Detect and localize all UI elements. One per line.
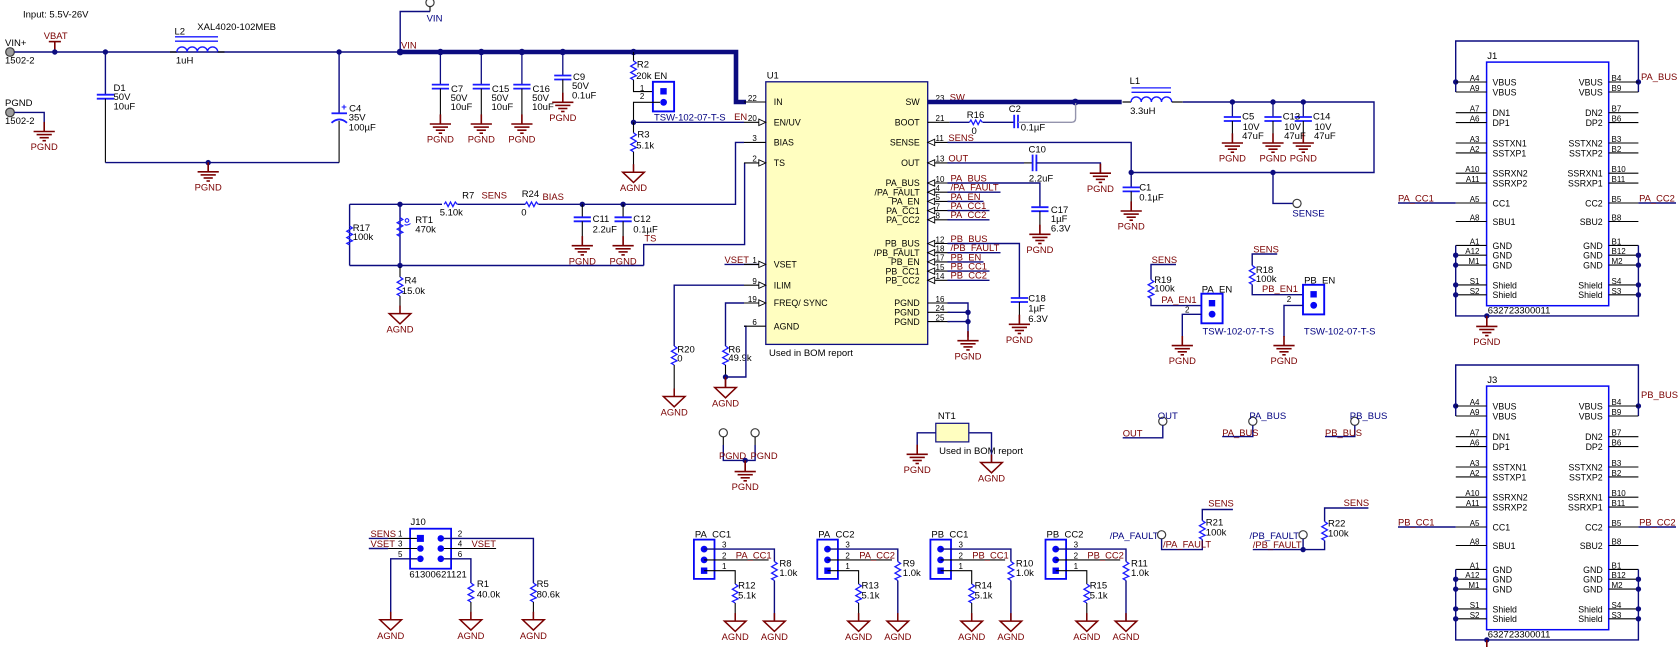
wire R5 bottom lead	[532, 602, 534, 620]
wire stub PB_EN	[948, 261, 984, 263]
svg-text:VIN: VIN	[401, 40, 417, 51]
ground AGND (U1)	[715, 380, 737, 398]
svg-text:AGND: AGND	[712, 398, 739, 409]
wire test point 1 lead	[722, 437, 724, 445]
svg-text:2: 2	[640, 92, 645, 101]
resistor R1	[468, 583, 474, 602]
wire PB_CC2 pin1 to R15	[1056, 571, 1087, 584]
inductor L1 core bars	[1132, 88, 1172, 92]
wire PB_BUS off-page	[1325, 425, 1355, 436]
off-page connector SENSE	[1293, 199, 1301, 207]
svg-text:TSW-102-07-T-S: TSW-102-07-T-S	[1304, 327, 1376, 338]
svg-text:0.1uF: 0.1uF	[572, 90, 596, 101]
port PGND 1502-2	[6, 108, 15, 117]
svg-text:1502-2: 1502-2	[5, 56, 35, 67]
svg-text:OUT: OUT	[948, 152, 968, 163]
pin 4 /PA_FAULT stub	[928, 191, 950, 193]
svg-text:3: 3	[398, 540, 403, 549]
power symbol PGND (C7)	[430, 114, 451, 133]
pin 2 TS stub	[744, 162, 766, 164]
wire C7 top lead	[439, 52, 441, 85]
svg-text:2: 2	[1074, 551, 1079, 560]
svg-text:1uH: 1uH	[176, 56, 194, 67]
resistor R12	[732, 584, 738, 603]
svg-text:PGND: PGND	[954, 350, 981, 361]
svg-text:PA_CC1: PA_CC1	[736, 549, 772, 560]
svg-text:10uF: 10uF	[451, 102, 473, 113]
junction C5	[1230, 99, 1235, 104]
svg-text:PGND: PGND	[1087, 183, 1114, 194]
connector PB_CC1 3-pin header	[930, 540, 951, 579]
wire PGND pins	[948, 303, 969, 337]
capacitor D1	[97, 95, 114, 99]
wire D1 bottom lead	[104, 99, 106, 163]
wire R18 net	[1252, 254, 1303, 295]
svg-text:1: 1	[1074, 562, 1079, 571]
svg-text:FREQ/ SYNC: FREQ/ SYNC	[774, 298, 828, 308]
resistor R13	[856, 584, 862, 603]
inductor L2	[177, 47, 218, 52]
svg-text:80.6k: 80.6k	[537, 590, 560, 601]
svg-text:R3: R3	[637, 130, 649, 141]
pin 5 PA_EN stub	[928, 200, 950, 202]
svg-text:SENS: SENS	[1344, 497, 1370, 508]
net-tie NT1	[936, 423, 969, 442]
ground AGND (R11)	[1115, 613, 1137, 631]
svg-text:5.1k: 5.1k	[738, 590, 756, 601]
svg-text:6: 6	[752, 318, 757, 327]
svg-text:PGND: PGND	[732, 481, 759, 492]
power symbol PGND (C11)	[572, 236, 593, 255]
resistor R3	[631, 133, 637, 152]
pin 3 BIAS stub	[744, 141, 766, 143]
wire TS rail	[350, 265, 644, 267]
svg-text:PA_BUS: PA_BUS	[1222, 427, 1258, 438]
wire PB_CC2 stub (J3)	[1638, 526, 1676, 528]
svg-text:C10: C10	[1029, 144, 1046, 155]
power symbol PGND (test points)	[735, 462, 756, 481]
svg-text:SENS: SENS	[1208, 498, 1234, 509]
svg-text:AGND: AGND	[845, 631, 872, 642]
svg-text:PGND: PGND	[751, 450, 778, 461]
svg-text:0: 0	[972, 126, 977, 137]
svg-text:1: 1	[845, 562, 850, 571]
resistor R4	[397, 277, 403, 296]
svg-text:OUT: OUT	[901, 158, 920, 168]
capacitor C11	[574, 217, 591, 221]
svg-text:2: 2	[959, 551, 964, 560]
junction C9	[560, 49, 566, 55]
svg-text:100k: 100k	[1328, 528, 1349, 539]
svg-text:R5: R5	[537, 579, 549, 590]
svg-text:AGND: AGND	[997, 631, 1024, 642]
pin 1 VSET stub	[744, 263, 766, 265]
svg-text:AGND: AGND	[386, 324, 413, 335]
wire C15 bottom lead	[480, 89, 482, 124]
svg-text:/PB_FAULT: /PB_FAULT	[1253, 539, 1302, 550]
svg-text:PGND: PGND	[5, 98, 33, 109]
svg-text:VBAT: VBAT	[44, 30, 68, 41]
wire R10 to AGND	[1010, 581, 1012, 622]
svg-text:VSET: VSET	[371, 538, 396, 549]
wire ILIM to R20	[674, 285, 744, 346]
junction test point gnd	[743, 458, 748, 463]
wire R16 to C2	[983, 121, 1015, 123]
wire L1 right lead	[1172, 101, 1183, 103]
wire stub PA_CC2	[948, 219, 990, 221]
svg-text:PGND: PGND	[1270, 355, 1297, 366]
pin 15 PB_CC1 stub	[928, 270, 950, 272]
wire R17 column	[349, 204, 351, 265]
power symbol PGND (PB_EN)	[1273, 336, 1294, 355]
svg-text:SENS: SENS	[482, 190, 508, 201]
svg-text:100k: 100k	[1154, 284, 1175, 295]
svg-text:AGND: AGND	[1112, 631, 1139, 642]
wire C16 bottom lead	[521, 89, 523, 124]
wire RT1 column	[399, 204, 401, 265]
svg-text:PGND: PGND	[508, 134, 535, 145]
wire C5 top lead	[1231, 102, 1233, 117]
ground AGND (R10)	[1000, 613, 1022, 631]
svg-text:1: 1	[722, 562, 727, 571]
junction VIN bus left	[397, 49, 404, 56]
wire R15 bottom lead	[1086, 603, 1088, 621]
svg-text:Used in BOM report: Used in BOM report	[939, 446, 1023, 457]
capacitor C13	[1264, 117, 1281, 121]
capacitor C10	[1033, 155, 1037, 172]
svg-text:PGND: PGND	[1026, 244, 1053, 255]
svg-text:20k: 20k	[636, 71, 652, 82]
svg-text:PA_CC1: PA_CC1	[1398, 192, 1434, 203]
wire J10 pin2 to R5	[444, 538, 533, 583]
svg-text:10uF: 10uF	[114, 101, 136, 112]
svg-text:TS: TS	[774, 158, 785, 168]
pin 12 PB_BUS stub	[928, 243, 950, 245]
wire R8 to AGND	[773, 581, 775, 622]
power symbol PGND (PA_EN)	[1172, 336, 1193, 355]
op-amp U1 body (TPS259xx)	[766, 82, 928, 345]
wire PB_CC1 stub (J3)	[1398, 526, 1456, 528]
resistor R20	[671, 346, 677, 365]
svg-text:C12: C12	[633, 214, 650, 225]
wire PB_CC2 pin2 stub	[1056, 559, 1121, 561]
svg-text:SW: SW	[906, 97, 921, 107]
pin 6 AGND stub	[744, 325, 766, 327]
ground AGND (R15)	[1076, 613, 1098, 631]
svg-text:14: 14	[936, 272, 945, 281]
svg-text:PGND: PGND	[1473, 336, 1500, 347]
pin 22 IN stub	[744, 101, 766, 103]
wire C4 bottom lead	[338, 121, 340, 163]
wire R20 bottom lead	[673, 365, 675, 397]
junction C7	[437, 49, 443, 55]
power symbol PGND (input)	[34, 122, 55, 141]
svg-text:C5: C5	[1242, 112, 1254, 123]
connector J10 pins	[417, 535, 444, 562]
wire PB_CC1 pin1 to R14	[941, 571, 972, 584]
svg-text:AGND: AGND	[761, 631, 788, 642]
svg-text:AGND: AGND	[1073, 631, 1100, 642]
pin 17 PB_EN stub	[928, 261, 950, 263]
capacitor C4 (polarized)	[332, 113, 348, 123]
wire R13 bottom lead	[858, 603, 860, 621]
svg-text:AGND: AGND	[377, 630, 404, 641]
wire PB_EN pin2 to PGND	[1284, 305, 1303, 337]
svg-text:5.1k: 5.1k	[1090, 590, 1108, 601]
svg-text:ILIM: ILIM	[774, 280, 791, 290]
off-page connector PB_BUS	[1351, 417, 1359, 425]
svg-text:PB_CC2: PB_CC2	[951, 270, 987, 281]
svg-text:/PA_FAULT: /PA_FAULT	[1110, 531, 1159, 542]
svg-text:EN: EN	[734, 111, 747, 122]
svg-text:IN: IN	[774, 97, 783, 107]
svg-text:5.1k: 5.1k	[862, 590, 880, 601]
svg-text:17: 17	[936, 254, 945, 263]
wire PA_EN pin2 to PGND	[1182, 314, 1201, 337]
wire PB_CC1 pin2 stub	[941, 559, 1006, 561]
wire R2 top lead	[633, 52, 635, 61]
capacitor C7	[432, 85, 449, 89]
svg-text:3: 3	[1074, 541, 1079, 550]
wire R2 to EN pin 1	[634, 80, 662, 92]
svg-text:12: 12	[936, 235, 945, 244]
svg-text:PGND: PGND	[904, 464, 931, 475]
svg-text:1.0k: 1.0k	[903, 568, 921, 579]
svg-text:R2: R2	[637, 60, 649, 71]
svg-text:OUT: OUT	[1123, 427, 1143, 438]
pin 13 OUT stub	[928, 162, 950, 164]
svg-text:C13: C13	[1283, 112, 1300, 123]
svg-text:9: 9	[752, 277, 757, 286]
wire R11 to AGND	[1125, 581, 1127, 622]
svg-text:SENSE: SENSE	[1292, 209, 1324, 220]
wire C13 top lead	[1272, 102, 1274, 117]
power symbol PGND (U1)	[957, 331, 978, 350]
inductor L2 core bars	[175, 37, 218, 41]
wire TS net to U1	[644, 163, 745, 266]
port PGND test point 1	[719, 429, 727, 437]
wire EN net to U1	[634, 121, 745, 123]
pin 21 BOOT stub	[928, 121, 950, 123]
svg-text:19: 19	[748, 295, 757, 304]
wire C15 top lead	[480, 52, 482, 85]
ground AGND (R20)	[663, 389, 685, 407]
svg-text:PA_EN1: PA_EN1	[1161, 294, 1196, 305]
capacitor C18	[1011, 298, 1028, 302]
svg-text:5.1k: 5.1k	[975, 590, 993, 601]
svg-text:R1: R1	[477, 579, 489, 590]
capacitor C2	[1014, 115, 1018, 128]
wire SENS net	[948, 142, 1132, 172]
svg-text:AGND: AGND	[774, 321, 799, 331]
svg-text:100µF: 100µF	[349, 123, 376, 134]
wire stub PA_EN	[948, 200, 984, 202]
svg-text:NT1: NT1	[938, 411, 956, 422]
wire C11 bottom lead	[581, 221, 583, 245]
ground AGND (R8)	[764, 613, 786, 631]
resistor R14	[969, 584, 975, 603]
svg-text:5: 5	[936, 193, 941, 202]
power symbol PGND (C5)	[1222, 133, 1243, 152]
svg-text:49.9k: 49.9k	[728, 353, 751, 364]
wire L1 to output loop	[1131, 102, 1374, 173]
junction D1 top	[103, 49, 108, 54]
wire C12 top lead	[622, 204, 624, 217]
svg-text:1: 1	[752, 256, 757, 265]
wire SENS stub (J10)	[369, 537, 388, 539]
wire stub PB_CC1	[948, 270, 990, 272]
resistor R2	[631, 61, 637, 80]
svg-text:25: 25	[936, 313, 945, 322]
power symbol PGND (C1)	[1121, 201, 1142, 220]
svg-text:3: 3	[722, 541, 727, 550]
wire C1 top lead	[1130, 173, 1132, 188]
resistor R16	[969, 120, 982, 125]
svg-text:AGND: AGND	[520, 630, 547, 641]
wire PGND port to ground	[14, 112, 44, 123]
svg-text:0.1µF: 0.1µF	[1021, 122, 1046, 133]
pin 18 /PB_FAULT stub	[928, 252, 950, 254]
svg-text:EN: EN	[654, 71, 667, 82]
pin 8 PA_CC2 stub	[928, 219, 950, 221]
svg-text:AGND: AGND	[958, 631, 985, 642]
junction C1	[1129, 170, 1134, 175]
wire stub /PB_FAULT	[948, 252, 1001, 254]
wire C14 bottom lead	[1302, 121, 1304, 134]
junction SW-C2	[1072, 99, 1079, 106]
svg-text:PGND: PGND	[31, 141, 58, 152]
wire stub /PA_FAULT	[948, 191, 1001, 193]
ground AGND (R3)	[623, 164, 645, 182]
wire PGND pin 24	[948, 311, 969, 313]
junction C14	[1301, 99, 1306, 104]
wire OUT to C10	[948, 162, 1025, 164]
svg-text:0: 0	[521, 208, 526, 219]
junction SENSE tap	[1270, 170, 1275, 175]
wire FREQ/SYNC to R6	[726, 303, 745, 346]
wire VIN+ rail	[14, 51, 400, 53]
wire R1 bottom lead	[470, 602, 472, 620]
svg-text:1.0k: 1.0k	[1016, 568, 1034, 579]
svg-text:5.1k: 5.1k	[636, 140, 654, 151]
svg-text:21: 21	[936, 114, 945, 123]
wire bottom rail D1-C4	[105, 162, 339, 164]
wire D1 top lead	[104, 52, 106, 95]
svg-text:PB_BUS: PB_BUS	[1350, 411, 1388, 422]
wire /PA_FAULT net	[1162, 510, 1233, 550]
wire VSET stub	[725, 263, 766, 265]
ground AGND (R5)	[523, 612, 545, 630]
svg-text:PGND: PGND	[1006, 334, 1033, 345]
svg-text:SENS: SENS	[1253, 244, 1279, 255]
wire C11 top lead	[581, 204, 583, 217]
junction C12	[620, 202, 625, 207]
wire C17 bottom lead	[1039, 211, 1041, 234]
svg-text:PB_CC2: PB_CC2	[1087, 549, 1123, 560]
power symbol PGND (C10)	[1090, 164, 1111, 183]
pin 16 PGND stub	[928, 302, 950, 304]
svg-text:PB_CC2: PB_CC2	[1639, 516, 1675, 527]
off-page connector /PB_FAULT	[1299, 531, 1307, 539]
svg-text:1: 1	[398, 529, 403, 538]
svg-text:PGND: PGND	[1290, 153, 1317, 164]
pin 25 PGND stub	[928, 321, 950, 323]
svg-text:PB_CC1: PB_CC1	[972, 549, 1008, 560]
junction C15	[478, 49, 484, 55]
svg-text:8: 8	[936, 212, 941, 221]
wire OUT off-page	[1123, 425, 1163, 437]
capacitor C9	[554, 76, 571, 80]
resistor R9	[895, 562, 901, 581]
wire R14 bottom lead	[971, 603, 973, 621]
svg-text:6.3V: 6.3V	[1051, 223, 1071, 234]
power symbol PGND (C12)	[613, 236, 634, 255]
wire NT1 right to AGND	[969, 433, 992, 463]
wire C9 top lead	[562, 52, 564, 76]
svg-text:AGND: AGND	[722, 631, 749, 642]
svg-text:PGND: PGND	[1118, 221, 1145, 232]
off-page connector PA_BUS	[1249, 417, 1257, 425]
pin 20 EN/UV stub	[744, 121, 766, 123]
power symbol VBAT	[49, 42, 61, 52]
svg-text:PB_EN1: PB_EN1	[1262, 283, 1298, 294]
svg-text:1.0k: 1.0k	[779, 568, 797, 579]
svg-text:AGND: AGND	[620, 182, 647, 193]
wire EN pin 2 down	[634, 102, 661, 122]
resistor R7	[444, 202, 457, 207]
wire C4 top lead	[338, 52, 340, 113]
svg-text:VSET: VSET	[774, 260, 798, 270]
wire L1 left lead	[1123, 101, 1132, 103]
wire L2 left lead	[170, 51, 177, 53]
svg-text:2: 2	[1185, 306, 1190, 315]
capacitor C15	[473, 85, 490, 89]
svg-text:22: 22	[748, 94, 757, 103]
resistor R19	[1148, 280, 1154, 299]
svg-text:100k: 100k	[1206, 527, 1227, 538]
wire SENS/BIAS rail	[350, 203, 442, 205]
resistor R10	[1008, 562, 1014, 581]
power symbol PGND (rail)	[198, 162, 219, 181]
junction bottom rail	[206, 160, 211, 165]
svg-text:10: 10	[936, 175, 945, 184]
wire J10 pin3 lead	[388, 548, 417, 550]
thermistor RT1 mark	[405, 219, 411, 225]
wire PA_CC1 pin2 stub	[704, 559, 769, 561]
resistor R17	[347, 226, 353, 245]
svg-text:PB_BUS: PB_BUS	[1325, 427, 1362, 438]
capacitor C14	[1295, 117, 1312, 121]
wire R3 top lead	[633, 122, 635, 133]
junction AGND net	[723, 374, 728, 379]
svg-text:PGND: PGND	[1169, 355, 1196, 366]
wire SENSE tap	[1273, 173, 1293, 204]
wire C1 bottom lead	[1130, 191, 1132, 211]
wire BIAS to U1	[538, 142, 744, 204]
svg-text:OUT: OUT	[1158, 411, 1178, 422]
wire R6 bottom lead	[725, 365, 727, 377]
svg-text:BOOT: BOOT	[895, 118, 921, 128]
resistor R18	[1249, 266, 1255, 285]
svg-text:1502-2: 1502-2	[5, 116, 35, 127]
svg-text:61300621121: 61300621121	[409, 569, 466, 580]
junction C13	[1270, 99, 1275, 104]
svg-text:J10: J10	[411, 517, 426, 528]
svg-text:AGND: AGND	[457, 630, 484, 641]
svg-text:5: 5	[398, 550, 403, 559]
wire VIN offpage stub	[429, 7, 431, 12]
svg-text:PB_BUS: PB_BUS	[1641, 389, 1678, 400]
